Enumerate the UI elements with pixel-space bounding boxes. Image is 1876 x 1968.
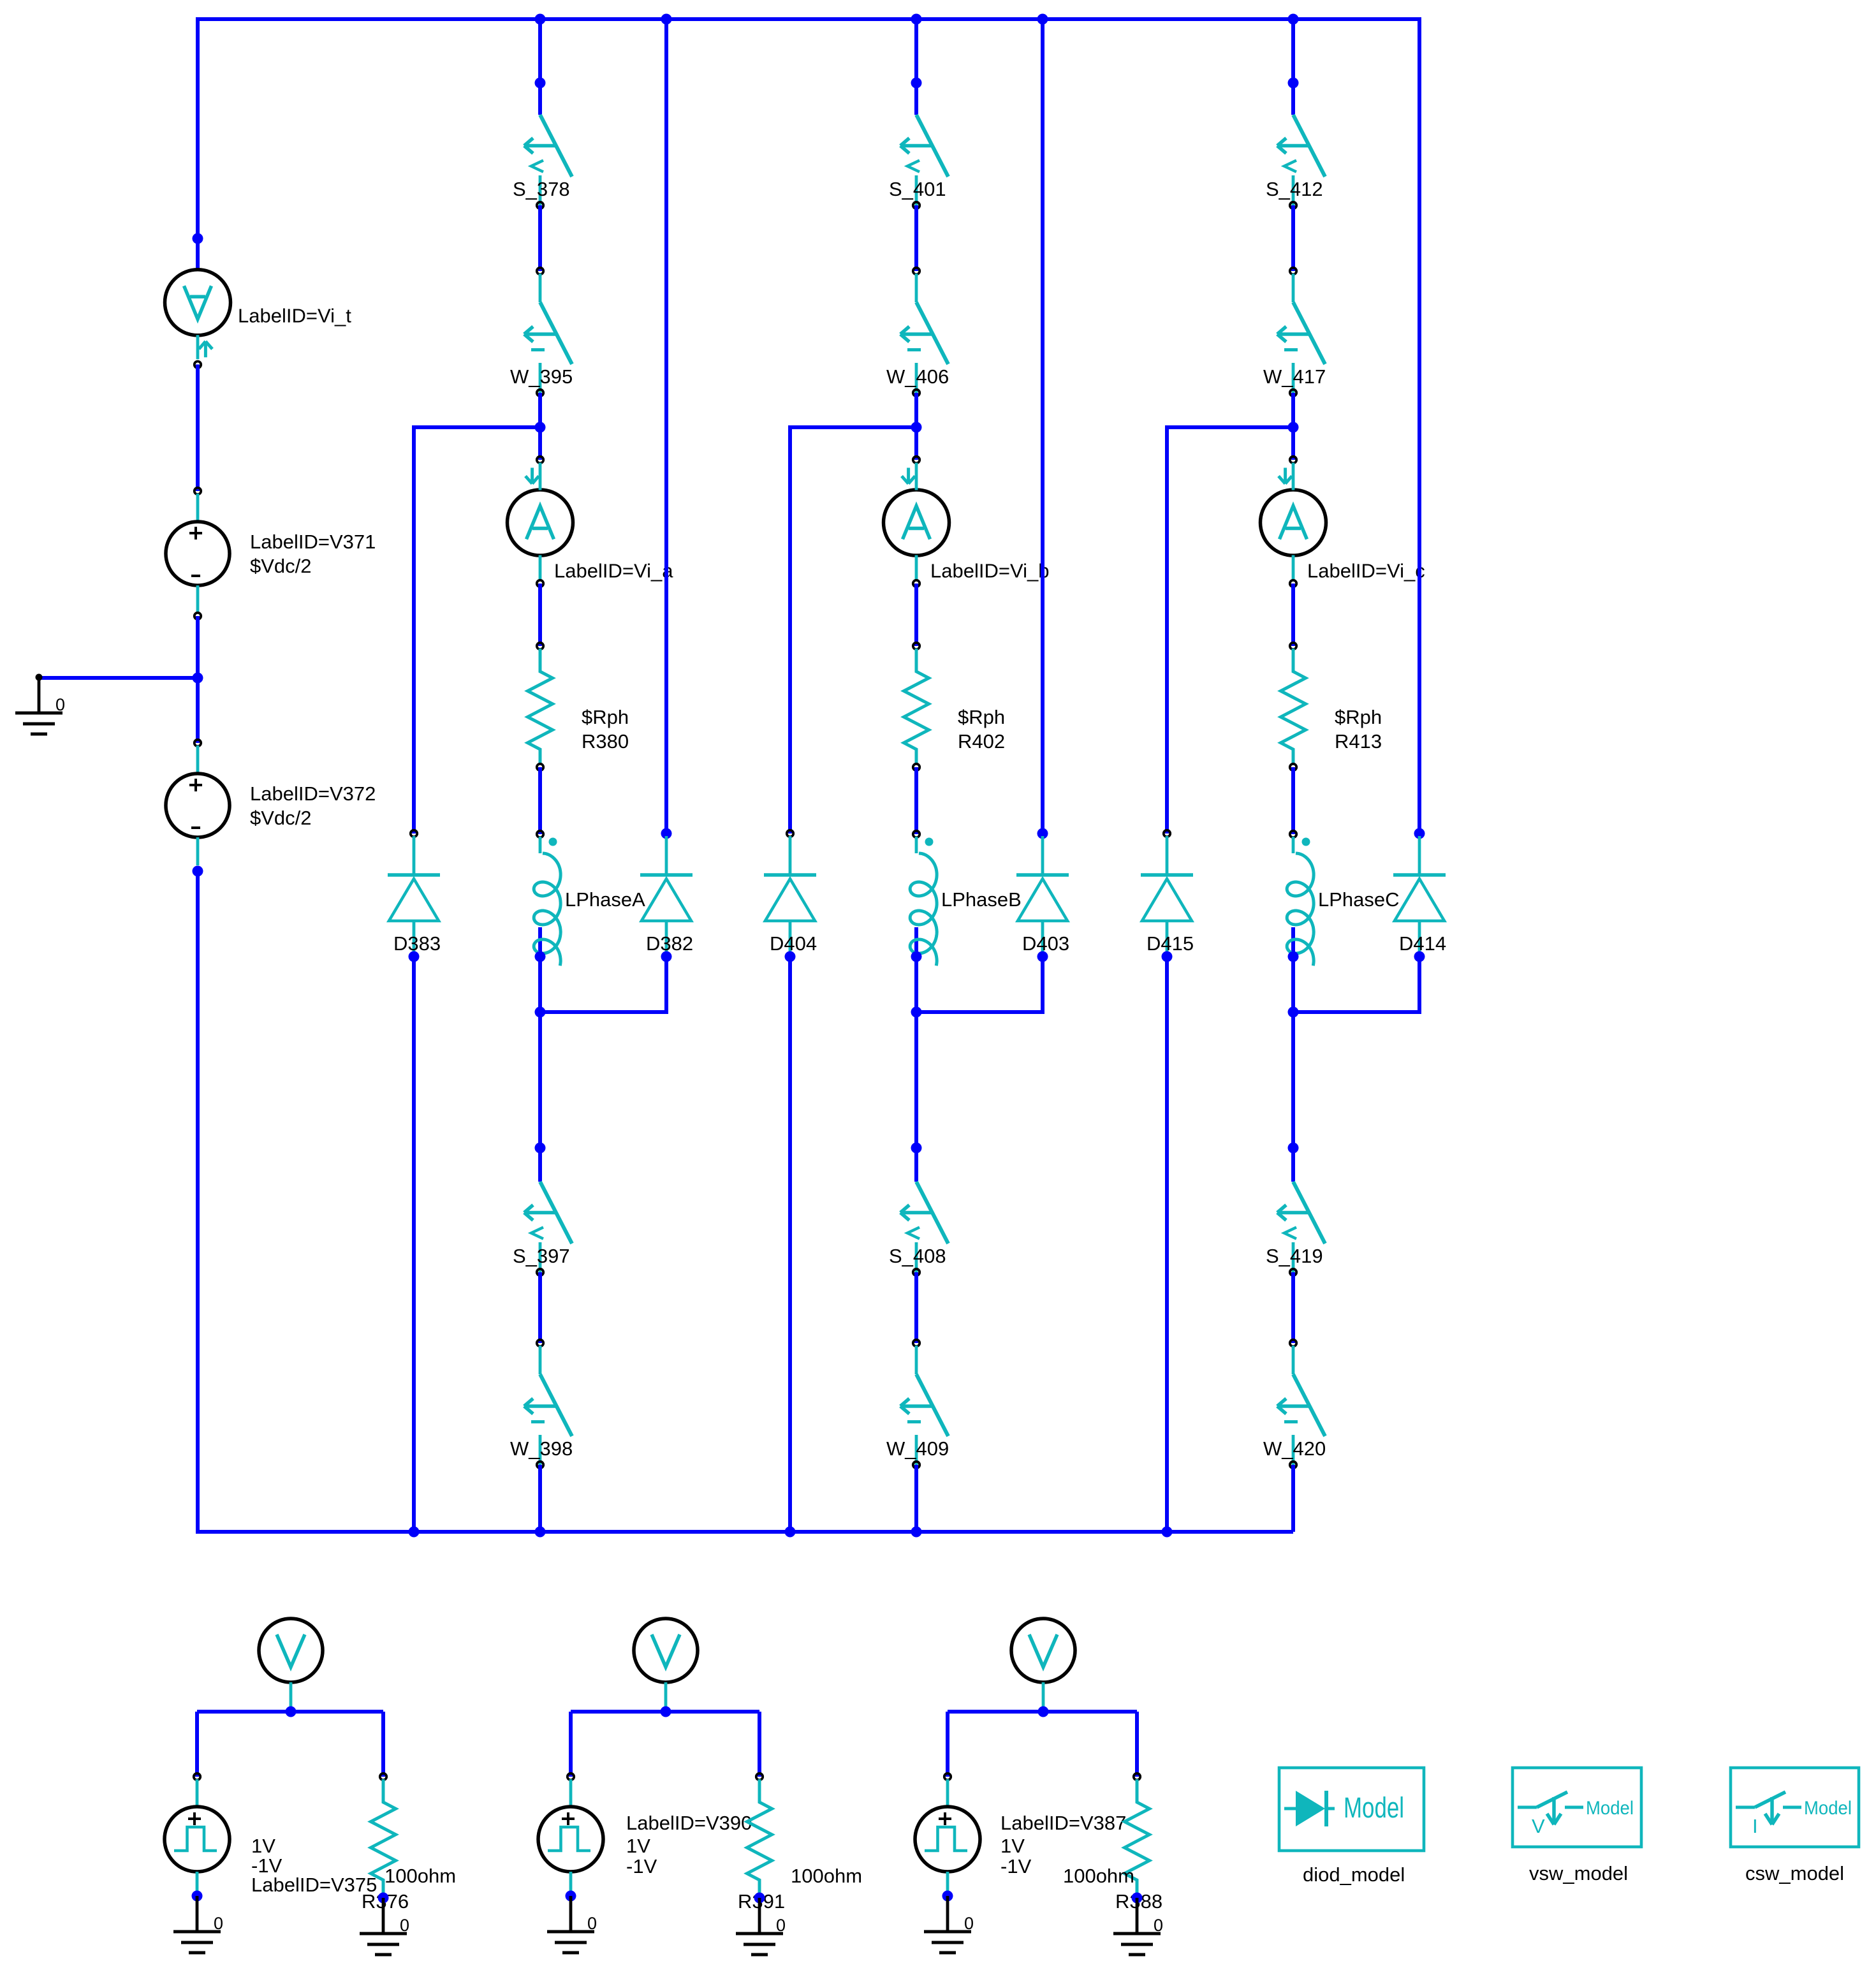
node R391 bottom (754, 1893, 765, 1904)
wire node Mc to S_419 (1291, 1012, 1295, 1182)
node top rail junction D403 (1037, 14, 1048, 25)
model box csw_model (1731, 1768, 1859, 1884)
svg-text:LabelID=V387: LabelID=V387 (1000, 1812, 1126, 1834)
node V372 negative terminal (193, 866, 203, 877)
svg-text:0: 0 (1154, 1916, 1163, 1935)
node probe junction V387 (1038, 1707, 1049, 1717)
wire S_408 to W_409 (914, 1272, 918, 1343)
switch W_398 (csw) (510, 1340, 573, 1468)
wire inductor to node Mc (1291, 957, 1295, 1012)
wire inductor to node Ma (538, 957, 542, 1012)
svg-text:I: I (1752, 1815, 1758, 1837)
voltage probe (V) for V387 (1011, 1619, 1075, 1710)
node probe junction V390 (661, 1707, 671, 1717)
node D414 anode (1414, 951, 1425, 962)
value label 100ohm (R391) (791, 1865, 862, 1887)
svg-text:$Rph: $Rph (1335, 706, 1382, 728)
svg-text:S_419: S_419 (1266, 1245, 1323, 1267)
svg-text:1V: 1V (251, 1835, 275, 1857)
svg-text:LabelID=V371: LabelID=V371 (250, 531, 376, 553)
wire bus to resistor R391 (758, 1712, 761, 1777)
wire S_412 to W_417 (1291, 205, 1295, 271)
svg-text:$Rph: $Rph (582, 706, 629, 728)
wire W_420 to bottom rail (1291, 1465, 1295, 1532)
node Mc (1288, 1007, 1299, 1018)
wire probe bus V375 (197, 1710, 383, 1714)
ground 0 (R388) (1113, 1898, 1163, 1955)
wire ammeter to resistor R413 (1291, 584, 1295, 646)
node D383 anode (409, 951, 420, 962)
svg-text:LPhaseB: LPhaseB (941, 888, 1022, 911)
wire W_409 to bottom rail (914, 1465, 918, 1532)
designator label R391 (738, 1890, 785, 1913)
svg-text:100ohm: 100ohm (791, 1865, 862, 1887)
svg-text:diod_model: diod_model (1303, 1863, 1405, 1886)
svg-text:R413: R413 (1335, 730, 1382, 753)
wire D414 to node Mc (1418, 957, 1421, 1014)
svg-text:Model: Model (1586, 1798, 1634, 1819)
switch S_419 (vsw) (1266, 1182, 1325, 1275)
ground 0 (R391) (736, 1898, 786, 1955)
wire bus to source V375 (195, 1712, 199, 1777)
switch S_412 (vsw) (1266, 115, 1325, 209)
value label 100ohm (R388) (1063, 1865, 1134, 1887)
wire resistor to inductor LPhaseB (914, 767, 918, 834)
wire W_406 to node Wb (914, 393, 918, 427)
svg-text:R402: R402 (958, 730, 1005, 753)
wire S_378 to W_395 (538, 205, 542, 271)
node D415 anode (1162, 951, 1173, 962)
wire node Ma to D382 column (540, 1010, 666, 1014)
svg-text:LabelID=V390: LabelID=V390 (626, 1812, 752, 1834)
svg-text:R380: R380 (582, 730, 629, 753)
svg-text:D383: D383 (393, 932, 441, 955)
node LPhaseA bottom (535, 951, 546, 962)
wire inductor to node Mb (914, 957, 918, 1012)
wire midpoint to ground tap (39, 676, 198, 680)
wire bus to source V390 (569, 1712, 573, 1777)
model box diod_model (1279, 1768, 1424, 1886)
svg-text:W_406: W_406 (886, 365, 949, 388)
wire rail to S_401 (914, 19, 918, 115)
wire W_398 to bottom rail (538, 1465, 542, 1532)
svg-text:D415: D415 (1147, 932, 1194, 955)
wire rail to S_378 (538, 19, 542, 115)
node S_397 input (535, 1143, 546, 1154)
resistor R380 ($Rph) (528, 643, 629, 770)
node probe junction V375 (286, 1707, 297, 1717)
ammeter Vi_b (884, 457, 1050, 587)
resistor R376 (100ohm) (371, 1773, 396, 1901)
svg-text:LabelID=V372: LabelID=V372 (250, 782, 376, 805)
svg-text:Model: Model (1804, 1798, 1852, 1819)
svg-text:vsw_model: vsw_model (1529, 1862, 1628, 1884)
node R388 bottom (1132, 1893, 1143, 1904)
wire bus to source V387 (946, 1712, 949, 1777)
node bottom rail junction phase b (911, 1527, 922, 1538)
svg-text:csw_model: csw_model (1745, 1862, 1844, 1884)
ground 0 (V375) (173, 1896, 223, 1953)
wire node Wc to ammeter (1291, 427, 1295, 460)
node V390 negative (566, 1891, 576, 1902)
designator label R388 (1115, 1890, 1162, 1913)
svg-text:W_395: W_395 (510, 365, 573, 388)
node top rail junction phase c (1288, 14, 1299, 25)
svg-text:-1V: -1V (1000, 1855, 1032, 1877)
designator label R376 (362, 1890, 409, 1913)
svg-text:LabelID=V375: LabelID=V375 (251, 1874, 377, 1896)
wire Vi_t to V371 (196, 365, 200, 492)
wire node Wb to ammeter (914, 427, 918, 460)
switch W_406 (csw) (886, 268, 949, 396)
node bottom rail junction D404 (785, 1527, 796, 1538)
wire ammeter to resistor R380 (538, 584, 542, 646)
wire D414 column upper (1418, 17, 1421, 833)
wire W_417 to node Wc (1291, 393, 1295, 427)
wire D383 column upper (412, 425, 416, 833)
node bottom rail junction phase a (535, 1527, 546, 1538)
inductor LPhaseC (1287, 831, 1399, 966)
svg-text:$Vdc/2: $Vdc/2 (250, 807, 312, 829)
switch S_408 (vsw) (889, 1182, 948, 1275)
node bottom rail junction D415 (1162, 1527, 1173, 1538)
node D404 anode (785, 951, 796, 962)
resistor R413 ($Rph) (1281, 643, 1382, 770)
wire node Wc to D415 column (1167, 425, 1293, 429)
node S_378 input (535, 78, 546, 89)
wire rail to S_412 (1291, 19, 1295, 115)
inductor LPhaseA (534, 831, 645, 966)
diode D382 (640, 828, 693, 957)
wire D404 to bottom rail (788, 957, 792, 1532)
wire node Mb to S_408 (914, 1012, 918, 1182)
node top rail junction D382 (661, 14, 672, 25)
resistor R402 ($Rph) (904, 643, 1006, 770)
switch S_397 (vsw) (513, 1182, 572, 1275)
pulse voltage source V387 (915, 1773, 1126, 1896)
wire probe bus V390 (571, 1710, 759, 1714)
value label 100ohm (R376) (385, 1865, 456, 1887)
switch S_401 (vsw) (889, 115, 948, 209)
node LPhaseB bottom (911, 951, 922, 962)
diode D414 (1393, 828, 1446, 957)
node R376 bottom (378, 1893, 389, 1904)
svg-text:0: 0 (400, 1916, 409, 1935)
node Wb (911, 422, 922, 433)
node left column upper junction (193, 233, 203, 244)
switch W_395 (csw) (510, 268, 573, 396)
diode D415 (1141, 830, 1194, 957)
wire D382 to node Ma (664, 957, 668, 1014)
svg-text:LabelID=Vi_a: LabelID=Vi_a (554, 560, 673, 582)
node V387 negative (942, 1891, 953, 1902)
svg-text:1V: 1V (626, 1835, 650, 1857)
ammeter Vi_a (508, 457, 674, 587)
wire node Mc to D414 column (1293, 1010, 1419, 1014)
svg-text:D414: D414 (1399, 932, 1446, 955)
svg-text:S_401: S_401 (889, 178, 946, 200)
voltage source V372 (166, 740, 376, 865)
switch W_409 (csw) (886, 1340, 949, 1468)
wire resistor to inductor LPhaseA (538, 767, 542, 834)
svg-text:LabelID=Vi_t: LabelID=Vi_t (238, 304, 351, 327)
node S_412 input (1288, 78, 1299, 89)
ammeter Vi_t (165, 270, 352, 368)
wire bus to resistor R376 (381, 1712, 385, 1777)
wire node Wa to ammeter (538, 427, 542, 460)
svg-text:0: 0 (776, 1916, 786, 1935)
svg-text:LabelID=Vi_b: LabelID=Vi_b (930, 560, 1049, 582)
wire left column lower (196, 871, 200, 1534)
diode D404 (764, 830, 817, 957)
ground 0 (V387) (924, 1896, 974, 1953)
ammeter Vi_c (1261, 457, 1425, 587)
pulse voltage source V375 (165, 1773, 377, 1896)
svg-text:S_408: S_408 (889, 1245, 946, 1267)
wire D404 column upper (788, 425, 792, 833)
svg-text:0: 0 (587, 1914, 597, 1933)
wire node Wa to D383 column (414, 425, 540, 429)
ground 0 (V390) (547, 1896, 597, 1953)
wire left column upper (196, 17, 200, 270)
wire S_397 to W_398 (538, 1272, 542, 1343)
wire D403 column upper (1041, 17, 1044, 833)
voltage probe (V) for V390 (634, 1619, 698, 1710)
wire S_401 to W_406 (914, 205, 918, 271)
node Wc (1288, 422, 1299, 433)
svg-text:1V: 1V (1000, 1835, 1025, 1857)
resistor R388 (100ohm) (1125, 1773, 1150, 1901)
svg-text:W_417: W_417 (1263, 365, 1326, 388)
switch W_417 (csw) (1263, 268, 1326, 396)
wire midpoint to V372 (196, 678, 200, 743)
node LPhaseC bottom (1288, 951, 1299, 962)
svg-text:W_409: W_409 (886, 1437, 949, 1460)
node D382 anode (661, 951, 672, 962)
svg-text:LPhaseA: LPhaseA (565, 888, 645, 911)
svg-text:D404: D404 (770, 932, 817, 955)
node Mb (911, 1007, 922, 1018)
svg-text:0: 0 (964, 1914, 974, 1933)
wire node Ma to S_397 (538, 1012, 542, 1182)
wire resistor to inductor LPhaseC (1291, 767, 1295, 834)
ground 0 (DC midpoint) (15, 674, 65, 735)
svg-text:S_378: S_378 (513, 178, 570, 200)
wire node Mb to D403 column (916, 1010, 1043, 1014)
wire D403 to node Mb (1041, 957, 1044, 1014)
svg-text:LPhaseC: LPhaseC (1318, 888, 1400, 911)
node S_408 input (911, 1143, 922, 1154)
wire ammeter to resistor R402 (914, 584, 918, 646)
svg-text:100ohm: 100ohm (385, 1865, 456, 1887)
ground 0 (R376) (360, 1898, 409, 1955)
svg-text:W_420: W_420 (1263, 1437, 1326, 1460)
svg-text:V: V (1532, 1815, 1545, 1837)
wire top rail (198, 17, 1419, 21)
switch S_378 (vsw) (513, 115, 572, 209)
wire W_395 to node Wa (538, 393, 542, 427)
svg-text:-1V: -1V (626, 1855, 657, 1877)
node S_401 input (911, 78, 922, 89)
wire node Wb to D404 column (790, 425, 916, 429)
wire D415 to bottom rail (1165, 957, 1169, 1532)
svg-text:$Rph: $Rph (958, 706, 1005, 728)
node DC midpoint (193, 673, 203, 684)
node Wa (535, 422, 546, 433)
node S_419 input (1288, 1143, 1299, 1154)
model box vsw_model (1513, 1768, 1641, 1884)
svg-text:100ohm: 100ohm (1063, 1865, 1134, 1887)
node top rail junction phase b (911, 14, 922, 25)
wire D383 to bottom rail (412, 957, 416, 1532)
diode D403 (1016, 828, 1069, 957)
wire V371 to midpoint (196, 616, 200, 678)
svg-text:0: 0 (214, 1914, 223, 1933)
node top rail junction phase a (535, 14, 546, 25)
switch W_420 (csw) (1263, 1340, 1326, 1468)
node bottom rail junction D383 (409, 1527, 420, 1538)
svg-text:0: 0 (55, 695, 65, 714)
wire bottom rail (198, 1530, 1293, 1534)
svg-text:S_412: S_412 (1266, 178, 1323, 200)
svg-text:D382: D382 (646, 932, 693, 955)
voltage probe (V) for V375 (259, 1619, 323, 1710)
svg-text:LabelID=Vi_c: LabelID=Vi_c (1307, 560, 1425, 582)
node D403 anode (1037, 951, 1048, 962)
svg-text:W_398: W_398 (510, 1437, 573, 1460)
node Ma (535, 1007, 546, 1018)
diode D383 (388, 830, 441, 957)
wire bus to resistor R388 (1135, 1712, 1139, 1777)
wire D415 column upper (1165, 425, 1169, 833)
wire D382 column upper (664, 17, 668, 833)
voltage source V371 (166, 488, 376, 619)
svg-text:Model: Model (1344, 1791, 1404, 1824)
wire probe bus V387 (948, 1710, 1137, 1714)
svg-text:D403: D403 (1022, 932, 1069, 955)
node V375 negative (192, 1891, 203, 1902)
inductor LPhaseB (910, 831, 1022, 966)
resistor R391 (100ohm) (747, 1773, 772, 1901)
svg-text:$Vdc/2: $Vdc/2 (250, 555, 312, 577)
pulse voltage source V390 (538, 1773, 752, 1896)
svg-text:S_397: S_397 (513, 1245, 570, 1267)
wire S_419 to W_420 (1291, 1272, 1295, 1343)
